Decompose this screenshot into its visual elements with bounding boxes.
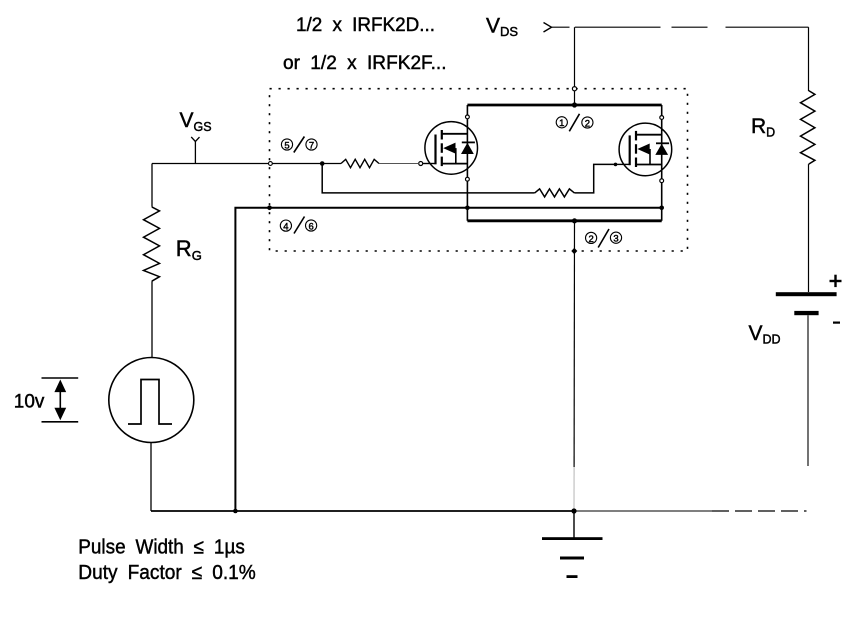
battery VDD [776,292,837,315]
svg-text:Pulse Width ≤ 1µs: Pulse Width ≤ 1µs [78,536,245,559]
junction dot on box bottom edge [571,248,577,254]
wire: drain top rail [467,104,661,107]
svg-text:3: 3 [613,234,618,245]
label RG [176,236,202,263]
wire: VDS top run to RD [552,26,570,28]
wire: M1 drain/source vertical [466,105,468,221]
pin label 1/2 [556,114,593,132]
svg-text:VGS: VGS [180,109,212,134]
pin circle Q1 drain [466,115,470,119]
10v double arrow [42,378,79,422]
junction dot at Q1 source line [465,206,470,211]
resistor internal R2 (Q2 gate) [535,189,575,197]
part number text line 2 [283,53,447,74]
pin circle Q1 source [466,177,470,181]
junction dot gate bus [320,161,325,166]
label 10v [14,391,45,412]
node VDS label [486,14,518,39]
junction dot on box left edge [267,206,272,211]
wire: VDS drop into module [574,27,576,105]
resistor RG [144,207,160,281]
wire: bottom rail right [574,510,712,512]
svg-text:1/2 x IRFK2D...: 1/2 x IRFK2D... [296,15,435,36]
junction dot bottom left [233,509,238,514]
node VGS probe [191,137,199,164]
svg-text:6: 6 [308,221,313,232]
pin circle Q2 source [660,179,664,183]
svg-text:RD: RD [751,115,775,140]
svg-text:2: 2 [588,234,593,245]
wire: VGS node down to RG [151,164,153,207]
pin label 5/7 [281,137,317,153]
battery minus sign [833,322,840,324]
wire: R2 to Q2 gate [574,164,615,193]
wire: gate bus 5/7 [152,163,341,165]
wire: center source drop to ground [573,221,575,467]
wire: pulse source to bottom rail [150,443,152,512]
wire: battery to bottom rail [807,315,809,466]
ground [542,511,603,578]
mosfet Q2 [616,123,672,176]
label RD [751,115,775,140]
junction on bottom rail [572,218,577,223]
svg-text:7: 7 [309,140,314,151]
svg-text:10v: 10v [14,391,45,412]
resistor internal R1 (Q1 gate) [341,159,379,167]
svg-text:1: 1 [559,118,564,129]
pin circle Q2 drain [660,116,664,120]
wire: source bottom rail [467,219,661,222]
label VDD [749,322,781,347]
wire: RG to pulse source [151,281,153,358]
svg-text:RG: RG [176,236,202,263]
pin label 4/6 [280,217,316,234]
svg-text:or 1/2 x IRFK2F...: or 1/2 x IRFK2F... [283,53,447,74]
svg-text:2: 2 [585,118,590,129]
wire: source bus 4/6 [235,208,661,511]
entry circle on box left edge [269,162,273,166]
pulse source V1 [109,358,194,443]
junction dot Q2 gate [614,163,618,167]
condition text line 2 [78,561,256,584]
svg-text:4: 4 [283,222,288,233]
wire: branch to Q2 gate resistor [322,164,535,193]
wire: M2 drain/source vertical [661,105,663,221]
node VGS label [180,109,212,134]
svg-text:VDS: VDS [486,14,518,39]
module dashed box [270,89,688,251]
wire: bottom rail left [151,510,574,512]
junction on top rail [572,102,577,107]
node VDS arrow [544,23,552,33]
svg-text:5: 5 [284,140,289,151]
svg-text:VDD: VDD [749,322,781,347]
pin circle Q1 gate [419,162,423,166]
junction dot bottom center [571,508,576,513]
svg-text:Duty Factor ≤ 0.1%: Duty Factor ≤ 0.1% [78,561,256,584]
resistor RD [801,27,815,292]
pin label 2/3 [586,229,622,248]
node: VDS entry circle on box top [572,87,576,91]
condition text line 1 [78,536,245,559]
junction dot at Q2 source line [659,206,664,211]
wire: R1 to Q1 gate [379,163,419,165]
part number text line 1 [296,15,435,36]
battery plus sign [830,275,842,287]
mosfet Q1 [423,122,478,175]
